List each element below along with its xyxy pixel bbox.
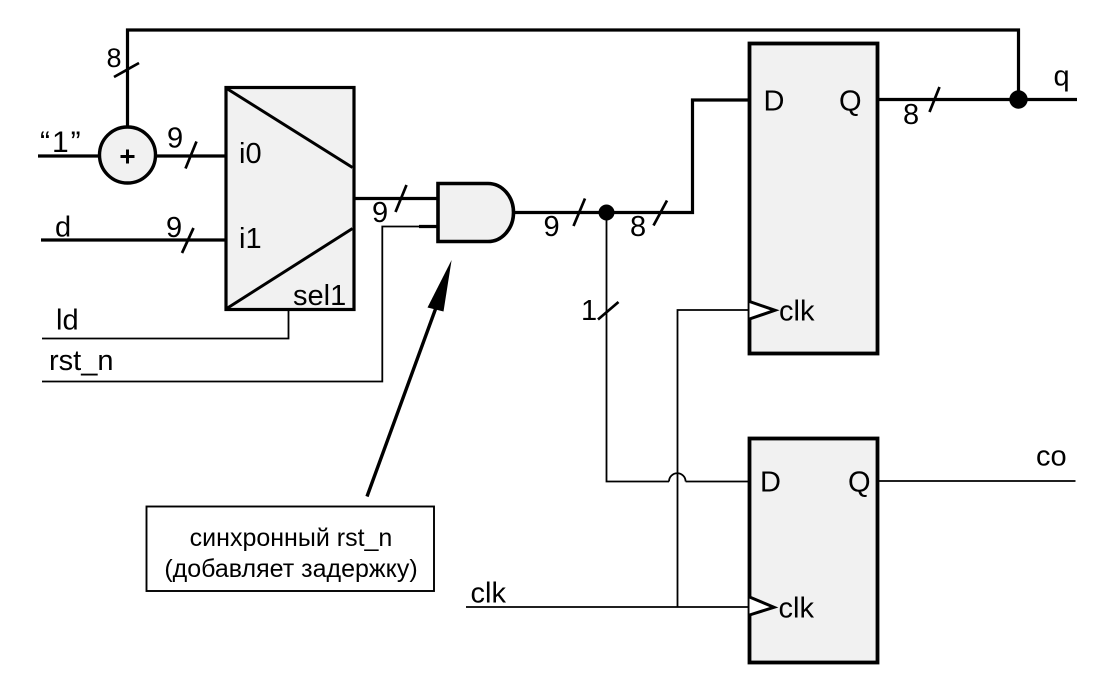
svg-text:1: 1 <box>581 295 597 327</box>
svg-text:8: 8 <box>903 99 919 131</box>
D flip-flop U4 body <box>750 439 878 663</box>
svg-text:q: q <box>1054 61 1070 93</box>
wire net d to mux i1 <box>41 238 226 241</box>
wire net "1" input to adder <box>38 154 99 157</box>
mux upper diagonal <box>228 89 353 168</box>
wire adder output to mux i0 <box>156 154 226 157</box>
svg-text:(добавляет задержку): (добавляет задержку) <box>164 555 417 583</box>
svg-text:co: co <box>1036 441 1067 473</box>
wire 1-bit from junction down to FF2 D with hop over clk line <box>607 213 750 482</box>
svg-text:rst_n: rst_n <box>49 345 113 377</box>
wire AND output to junction and up to FF1 D <box>513 100 749 213</box>
FF1 clock wedge <box>750 302 776 320</box>
svg-text:синхронный rst_n: синхронный rst_n <box>190 524 393 552</box>
junction node dot on q <box>1009 90 1027 108</box>
adder plus sign <box>121 150 135 164</box>
svg-text:Q: Q <box>848 467 871 499</box>
bus width slash 9 on adder output <box>186 142 197 169</box>
annotation arrow shaft <box>367 309 436 497</box>
bus width slash 9 on AND output <box>574 199 586 227</box>
svg-text:i1: i1 <box>239 223 262 255</box>
multiplexer MUX1 body <box>226 88 354 310</box>
svg-text:clk: clk <box>471 578 507 610</box>
FF2 clock wedge <box>750 597 775 615</box>
svg-text:Q: Q <box>839 86 862 118</box>
svg-text:clk: clk <box>779 296 815 328</box>
svg-text:ld: ld <box>56 305 79 337</box>
svg-text:clk: clk <box>779 593 815 625</box>
wire net ld to mux sel1 <box>42 311 289 339</box>
wire mux output to AND gate <box>354 197 438 200</box>
bus width slash 9 on d wire <box>182 228 194 253</box>
svg-text:sel1: sel1 <box>293 280 346 312</box>
AND gate input stub (thick) <box>419 225 438 228</box>
svg-text:i0: i0 <box>239 138 262 170</box>
annotation callout box <box>147 507 435 592</box>
svg-text:D: D <box>760 467 781 499</box>
wire FF2 Q output to co <box>878 480 1076 482</box>
bus width slash 9 on mux output <box>396 185 407 212</box>
svg-text:9: 9 <box>544 211 560 243</box>
svg-text:8: 8 <box>107 43 122 73</box>
annotation arrow head <box>428 260 452 312</box>
svg-text:9: 9 <box>166 212 182 244</box>
svg-text:d: d <box>55 212 71 244</box>
bus width slash 1 on vertical wire <box>598 302 619 320</box>
mux lower diagonal <box>228 229 353 309</box>
junction node dot <box>599 205 615 221</box>
D flip-flop U3 body <box>750 44 878 354</box>
wire net clk (bottom input, vertical to FF1 clk) <box>466 310 749 607</box>
wire feedback bus q to adder (vertical + top horizontal + right vertical) <box>128 30 1019 126</box>
bus width slash 8 on q output <box>930 87 940 112</box>
wire FF1 Q output to right edge <box>878 98 1078 101</box>
svg-text:8: 8 <box>630 211 646 243</box>
wire net rst_n to AND gate input <box>42 227 424 382</box>
svg-text:“1”: “1” <box>40 126 83 159</box>
bus width slash 8 after junction <box>654 201 668 226</box>
AND gate U2 <box>438 184 514 242</box>
svg-text:9: 9 <box>372 197 388 229</box>
svg-text:D: D <box>764 86 785 118</box>
bus width slash 8 on feedback wire <box>114 63 139 77</box>
adder U1 <box>100 127 156 183</box>
svg-text:9: 9 <box>167 123 183 155</box>
